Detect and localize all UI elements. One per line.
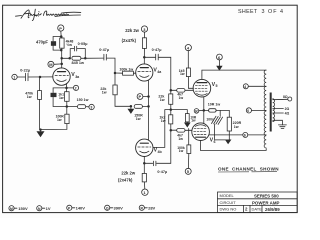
resistor 100k grid V4a [115, 71, 136, 75]
svg-text:390V: 390V [114, 206, 124, 211]
resistor 100R lower [65, 114, 69, 123]
secondary tap 4ohm [273, 112, 284, 114]
resistor 10R vertical [185, 114, 189, 122]
secondary tap 2ohm [273, 108, 284, 110]
svg-text:(2x47k): (2x47k) [122, 38, 137, 43]
resistor 22k grid leak [113, 73, 131, 106]
triode V4b [136, 139, 153, 156]
V6 plate wire to transformer [200, 141, 266, 151]
primary tap node 4 [243, 84, 248, 89]
svg-text:1w: 1w [59, 96, 64, 100]
capacitor 0.22u input [17, 73, 53, 80]
node 5 [185, 168, 191, 174]
capacitor 0.47u (V4b tail) [144, 161, 171, 166]
node 6 (V6 screen tap) [243, 132, 248, 137]
V5 plate wire to transformer [202, 70, 266, 79]
capacitor 100n (hatched) [212, 110, 228, 139]
ground (cathode, filled) [226, 140, 231, 144]
ground rail V3a cathode [41, 124, 67, 130]
wire to 100k feedback [188, 129, 190, 145]
svg-text:M: M [10, 207, 13, 211]
resistor 4k48 [60, 37, 64, 51]
resistor 220R [227, 117, 231, 139]
svg-text:1w: 1w [178, 137, 183, 141]
resistor 150R (V4a cathode) [134, 105, 148, 109]
svg-text:22k 2w: 22k 2w [125, 28, 139, 33]
V3a cathode network [51, 84, 74, 115]
svg-text:P: P [59, 26, 62, 31]
node P (top supply) [58, 25, 64, 31]
parallel RC 845/0.05u [62, 46, 103, 60]
wire V4a cathode down to V4b [148, 80, 150, 140]
terminal P 140V [67, 205, 72, 210]
wire M to anode line [54, 63, 62, 65]
svg-text:SHEET: SHEET [238, 9, 258, 15]
svg-text:150 1w: 150 1w [77, 98, 89, 102]
terminal M 150V [9, 206, 14, 211]
svg-text:CIRCUIT: CIRCUIT [220, 200, 237, 205]
svg-text:1w: 1w [57, 118, 62, 122]
svg-text:1w: 1w [234, 125, 239, 129]
wire divider mid to 10R ground leg [171, 110, 188, 114]
svg-text:2: 2 [75, 87, 77, 91]
V6 screen wire [209, 134, 243, 136]
svg-text:Q: Q [106, 206, 109, 210]
V5/V6 cathode line [203, 97, 205, 124]
resistor 470k [38, 77, 42, 130]
wire split left [53, 37, 61, 42]
capacitor C 470uF [51, 41, 61, 50]
svg-text:SERIES 500: SERIES 500 [254, 193, 279, 198]
resistor 4k7 to V6 grid [171, 129, 192, 133]
transformer secondary [273, 99, 275, 122]
border frame [3, 5, 298, 212]
svg-text:½w: ½w [66, 43, 72, 47]
resistor 150 to node 3 [67, 105, 89, 109]
svg-text:1w: 1w [180, 72, 185, 76]
resistor 22k (divider top) [169, 94, 173, 115]
node 2 (V3a cathode) [73, 85, 78, 90]
svg-text:1: 1 [13, 76, 15, 80]
svg-text:0·05µ: 0·05µ [78, 42, 88, 46]
triode V3a [53, 68, 70, 85]
svg-text:1w: 1w [161, 119, 166, 123]
svg-text:4Ω: 4Ω [285, 112, 290, 116]
ground (input) [37, 130, 44, 137]
svg-text:470µF: 470µF [36, 40, 48, 45]
svg-text:1V: 1V [46, 206, 51, 211]
svg-text:150V: 150V [18, 206, 28, 211]
node R (cathode test) [194, 109, 199, 114]
node 6 (plate line) [217, 54, 223, 60]
resistor 22k 2w anode V4a [142, 32, 146, 64]
svg-text:140V: 140V [76, 206, 86, 211]
svg-text:100k 1w: 100k 1w [119, 67, 133, 71]
terminal N 1V [37, 206, 42, 211]
transformer core [270, 93, 272, 132]
svg-text:MODEL: MODEL [220, 193, 235, 198]
capacitor 0.47u (right coupling) [144, 54, 171, 94]
ground (V4a grid leak) [128, 106, 133, 113]
svg-text:845 1w: 845 1w [72, 61, 85, 65]
svg-text:P: P [139, 94, 142, 99]
svg-text:1w: 1w [191, 119, 196, 123]
triode V4a [136, 64, 153, 81]
ground arrow (10R) [185, 122, 190, 127]
title block [218, 192, 298, 213]
svg-text:(2x47k): (2x47k) [118, 177, 133, 182]
wire anode V3a [61, 50, 63, 68]
svg-text:1w: 1w [27, 95, 32, 99]
resistor 22k 2w tail [142, 173, 146, 189]
secondary tap 8ohm [273, 98, 288, 100]
svg-text:2Ω: 2Ω [285, 107, 290, 111]
svg-text:0·22µ: 0·22µ [20, 68, 30, 72]
terminal Q 390V [105, 205, 110, 210]
pentode V5 [193, 79, 211, 97]
node M [48, 61, 54, 67]
svg-text:10R 1w: 10R 1w [208, 102, 221, 106]
resistor 10R cathode [204, 109, 230, 118]
secondary tap ground [273, 120, 283, 125]
svg-text:POWER AMP: POWER AMP [252, 200, 279, 205]
svg-text:8Ω: 8Ω [283, 95, 288, 99]
signature Audio Innovations [16, 9, 81, 20]
svg-text:1w: 1w [160, 98, 165, 102]
V4b grid line [153, 110, 171, 148]
svg-text:0·47µ: 0·47µ [157, 170, 167, 174]
svg-text:3: 3 [90, 106, 92, 110]
svg-text:1w: 1w [102, 90, 107, 94]
svg-text:5: 5 [216, 84, 218, 88]
V4b cathode junction [143, 157, 145, 174]
resistor 4k7 to V5 grid [171, 89, 193, 93]
svg-text:26/9/89: 26/9/89 [265, 207, 280, 212]
svg-text:ONE CHANNEL SHOWN: ONE CHANNEL SHOWN [218, 167, 279, 172]
resistor 1k2 (divider bottom) [169, 115, 173, 164]
node 4 (V5 screen supply) [185, 45, 191, 51]
wire node6 with arrow [217, 60, 222, 70]
wire P to anode line [143, 96, 149, 98]
svg-text:6: 6 [214, 140, 216, 144]
svg-text:3 OF 4: 3 OF 4 [262, 9, 284, 15]
svg-text:0: 0 [247, 109, 249, 113]
svg-text:1w: 1w [179, 149, 184, 153]
svg-text:28V: 28V [148, 206, 155, 211]
svg-text:100n: 100n [206, 117, 214, 121]
svg-text:DWG NO: DWG NO [220, 207, 237, 212]
svg-text:6: 6 [244, 134, 246, 138]
node P (V4b anode) [137, 94, 143, 100]
svg-text:1w: 1w [136, 117, 141, 121]
svg-text:4: 4 [244, 85, 246, 89]
svg-text:DATE: DATE [252, 207, 263, 212]
svg-text:1w: 1w [179, 96, 184, 100]
node 1 [142, 189, 148, 195]
resistor 1k5 screen [186, 51, 193, 89]
svg-text:22k 2w: 22k 2w [121, 171, 135, 176]
wire P down [60, 31, 62, 36]
SHEET 3 OF 4 [0, 0, 1, 1]
node 3 B+ (driver) [141, 26, 147, 32]
input terminal 1 [12, 74, 17, 79]
resistor 100k to node 5 [187, 145, 191, 169]
svg-text:0·47µ: 0·47µ [152, 48, 162, 52]
output transformer primary [264, 70, 266, 148]
pentode V6 [192, 123, 210, 141]
capacitor 0.47u (left coupling) [104, 54, 115, 73]
svg-text:0·47µ: 0·47µ [99, 48, 109, 52]
primary tap node 0 [246, 108, 251, 113]
terminal R 28V [139, 205, 144, 210]
node 3 (cathode tap) [89, 104, 94, 109]
